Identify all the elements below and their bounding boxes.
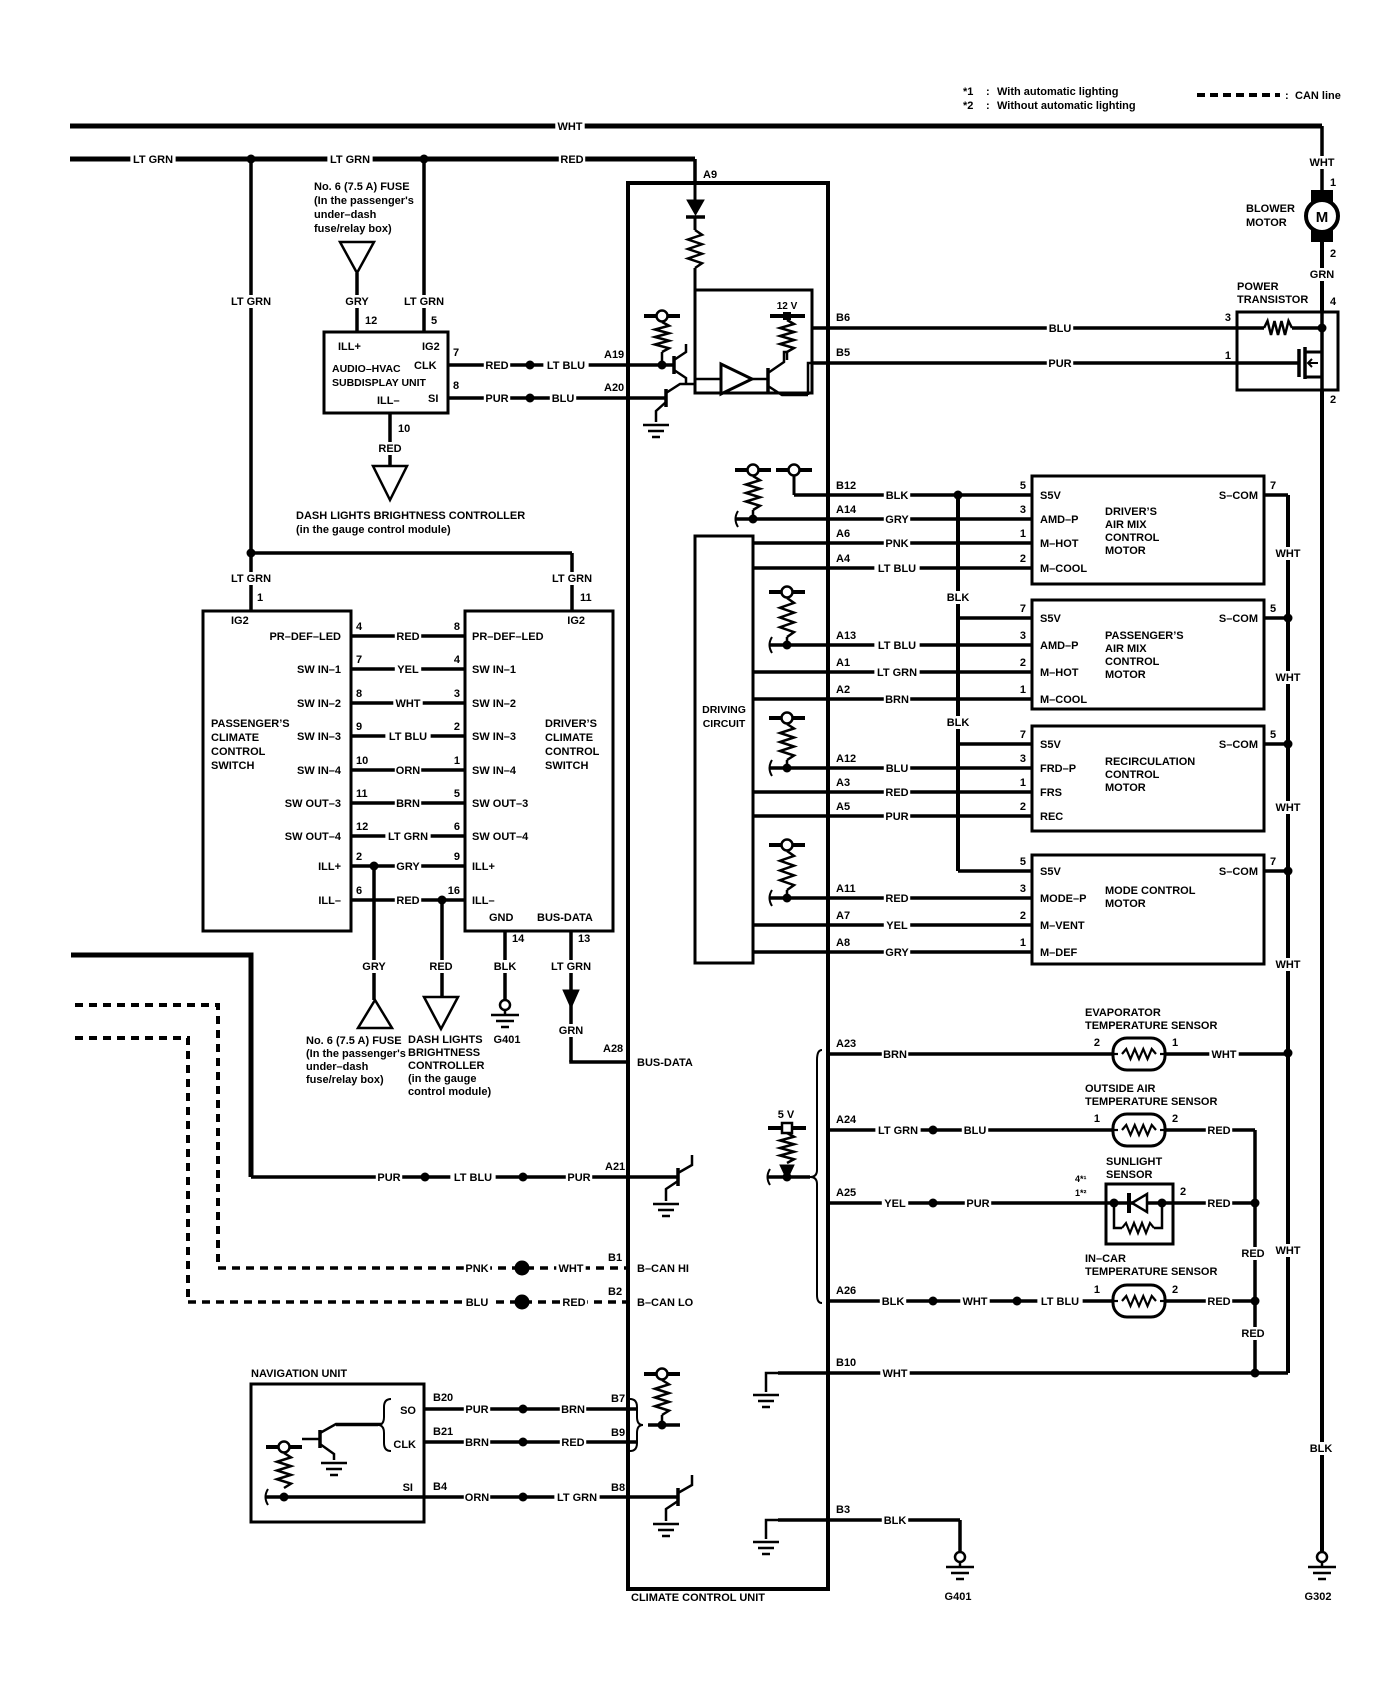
svg-text:2: 2: [1172, 1284, 1178, 1296]
svg-text:RECIRCULATION: RECIRCULATION: [1105, 756, 1195, 768]
svg-text:Without automatic lighting: Without automatic lighting: [997, 100, 1136, 112]
svg-text:S5V: S5V: [1040, 866, 1061, 878]
svg-text:2: 2: [356, 851, 362, 863]
svg-text:12: 12: [356, 821, 368, 833]
svg-text:DASH LIGHTS BRIGHTNESS CONTROL: DASH LIGHTS BRIGHTNESS CONTROLLER: [296, 510, 525, 522]
svg-text:S5V: S5V: [1040, 739, 1061, 751]
svg-text:SI: SI: [403, 1482, 413, 1494]
svg-text:7: 7: [1020, 729, 1026, 741]
svg-text:fuse/relay box): fuse/relay box): [314, 223, 392, 235]
svg-text:1: 1: [1020, 684, 1026, 696]
svg-text:CONTROL: CONTROL: [1105, 532, 1160, 544]
svg-text:RED: RED: [485, 360, 508, 372]
svg-text:2: 2: [1020, 910, 1026, 922]
svg-text:A21: A21: [605, 1161, 625, 1173]
svg-text:G302: G302: [1305, 1591, 1332, 1603]
svg-text:CLK: CLK: [393, 1439, 416, 1451]
svg-text:B1: B1: [608, 1252, 622, 1264]
svg-text:IG2: IG2: [567, 615, 585, 627]
svg-text:PUR: PUR: [1048, 358, 1071, 370]
svg-text:LT GRN: LT GRN: [878, 1125, 918, 1137]
svg-text:7: 7: [453, 347, 459, 359]
svg-text:IG2: IG2: [231, 615, 249, 627]
svg-text:2: 2: [1180, 1186, 1186, 1198]
svg-text:AUDIO–HVAC: AUDIO–HVAC: [332, 363, 401, 375]
svg-text:2: 2: [1330, 248, 1336, 260]
svg-text:5: 5: [1270, 603, 1276, 615]
svg-text:M–DEF: M–DEF: [1040, 947, 1078, 959]
svg-text:IN–CAR: IN–CAR: [1085, 1253, 1126, 1265]
svg-text:RED: RED: [1241, 1328, 1264, 1340]
svg-text:PUR: PUR: [966, 1198, 989, 1210]
svg-text:SW IN–4: SW IN–4: [297, 765, 342, 777]
svg-text:1: 1: [1172, 1037, 1178, 1049]
svg-text:B21: B21: [433, 1426, 453, 1438]
svg-text:SENSOR: SENSOR: [1106, 1169, 1153, 1181]
svg-text:CONTROLLER: CONTROLLER: [408, 1060, 484, 1072]
svg-text:3: 3: [1020, 753, 1026, 765]
svg-text:A20: A20: [604, 382, 624, 394]
svg-text:12: 12: [365, 315, 377, 327]
svg-text:*2: *2: [963, 100, 973, 112]
svg-text:G401: G401: [945, 1591, 972, 1603]
svg-text:PUR: PUR: [567, 1172, 590, 1184]
svg-text:ILL+: ILL+: [338, 341, 361, 353]
svg-text:1: 1: [1094, 1284, 1100, 1296]
svg-text:M–VENT: M–VENT: [1040, 920, 1085, 932]
svg-text:LT GRN: LT GRN: [330, 154, 370, 166]
svg-text:WHT: WHT: [882, 1368, 907, 1380]
svg-text:M–COOL: M–COOL: [1040, 694, 1087, 706]
svg-text:LT BLU: LT BLU: [1041, 1296, 1079, 1308]
svg-text:TEMPERATURE SENSOR: TEMPERATURE SENSOR: [1085, 1020, 1217, 1032]
svg-text:PNK: PNK: [885, 538, 908, 550]
svg-text:BLK: BLK: [947, 717, 970, 729]
svg-text:GRN: GRN: [1310, 269, 1335, 281]
svg-text:12 V: 12 V: [777, 301, 798, 312]
svg-text:under–dash: under–dash: [314, 209, 377, 221]
svg-text:PUR: PUR: [885, 811, 908, 823]
svg-text:WHT: WHT: [1211, 1049, 1236, 1061]
svg-text:A6: A6: [836, 528, 850, 540]
svg-text:A2: A2: [836, 684, 850, 696]
svg-text:SWITCH: SWITCH: [211, 760, 254, 772]
svg-text:LT BLU: LT BLU: [878, 563, 916, 575]
svg-text:B–CAN HI: B–CAN HI: [637, 1263, 689, 1275]
svg-text:MOTOR: MOTOR: [1105, 898, 1146, 910]
svg-text:1: 1: [257, 592, 263, 604]
svg-text:BUS-DATA: BUS-DATA: [537, 912, 593, 924]
svg-text:TEMPERATURE SENSOR: TEMPERATURE SENSOR: [1085, 1096, 1217, 1108]
svg-text:control module): control module): [408, 1086, 491, 1098]
svg-text:WHT: WHT: [962, 1296, 987, 1308]
svg-text:BLU: BLU: [466, 1297, 489, 1309]
svg-text:NAVIGATION UNIT: NAVIGATION UNIT: [251, 1368, 347, 1380]
svg-text:PASSENGER’S: PASSENGER’S: [211, 718, 290, 730]
svg-text:A12: A12: [836, 753, 856, 765]
svg-text:SW OUT–4: SW OUT–4: [285, 831, 342, 843]
svg-text:EVAPORATOR: EVAPORATOR: [1085, 1007, 1161, 1019]
svg-text:PR–DEF–LED: PR–DEF–LED: [269, 631, 341, 643]
svg-text:M–COOL: M–COOL: [1040, 563, 1087, 575]
svg-text:TRANSISTOR: TRANSISTOR: [1237, 294, 1308, 306]
svg-text:9: 9: [454, 851, 460, 863]
svg-text:RED: RED: [396, 631, 419, 643]
svg-text:GRY: GRY: [362, 961, 386, 973]
svg-text:PNK: PNK: [465, 1263, 488, 1275]
svg-text:11: 11: [356, 788, 368, 800]
svg-text:10: 10: [398, 423, 410, 435]
svg-text:LT BLU: LT BLU: [454, 1172, 492, 1184]
svg-text:WHT: WHT: [1275, 1245, 1300, 1257]
svg-text:under–dash: under–dash: [306, 1061, 369, 1073]
svg-text:1: 1: [1330, 177, 1336, 189]
svg-text:DASH LIGHTS: DASH LIGHTS: [408, 1034, 483, 1046]
svg-text:No. 6 (7.5 A) FUSE: No. 6 (7.5 A) FUSE: [314, 181, 410, 193]
svg-text:BLU: BLU: [964, 1125, 987, 1137]
svg-text:2: 2: [1094, 1037, 1100, 1049]
svg-text:2: 2: [1020, 657, 1026, 669]
svg-text:BRN: BRN: [396, 798, 420, 810]
svg-text:A11: A11: [836, 883, 856, 895]
svg-text:(In the passenger's: (In the passenger's: [314, 195, 414, 207]
svg-text:WHT: WHT: [1309, 157, 1334, 169]
svg-text:RED: RED: [560, 154, 583, 166]
svg-text:1*²: 1*²: [1075, 1188, 1087, 1198]
svg-text:CONTROL: CONTROL: [1105, 769, 1160, 781]
svg-text:LT BLU: LT BLU: [547, 360, 585, 372]
svg-text:PUR: PUR: [377, 1172, 400, 1184]
svg-text:GRY: GRY: [396, 861, 420, 873]
svg-text:B9: B9: [611, 1427, 625, 1439]
svg-text:ORN: ORN: [396, 765, 421, 777]
svg-text::: :: [986, 86, 990, 98]
svg-text:M: M: [1316, 209, 1329, 226]
svg-text:BRN: BRN: [883, 1049, 907, 1061]
svg-text:6: 6: [454, 821, 460, 833]
svg-text:SW OUT–3: SW OUT–3: [472, 798, 528, 810]
svg-text:G401: G401: [494, 1034, 521, 1046]
svg-text:ILL–: ILL–: [472, 895, 495, 907]
svg-text:WHT: WHT: [1275, 548, 1300, 560]
svg-text:RED: RED: [1207, 1198, 1230, 1210]
svg-text:A14: A14: [836, 504, 857, 516]
svg-text:B5: B5: [836, 347, 850, 359]
svg-text:*1: *1: [963, 86, 973, 98]
svg-text:BRIGHTNESS: BRIGHTNESS: [408, 1047, 480, 1059]
svg-text:YEL: YEL: [884, 1198, 906, 1210]
svg-text:8: 8: [454, 621, 460, 633]
svg-text:BLOWER: BLOWER: [1246, 203, 1295, 215]
svg-text:MODE CONTROL: MODE CONTROL: [1105, 885, 1196, 897]
svg-text:9: 9: [356, 721, 362, 733]
svg-text:3: 3: [1225, 312, 1231, 324]
svg-text:BLU: BLU: [886, 763, 909, 775]
svg-text:B6: B6: [836, 312, 850, 324]
svg-text:SUBDISPLAY UNIT: SUBDISPLAY UNIT: [332, 377, 427, 389]
svg-text:1: 1: [1094, 1113, 1100, 1125]
svg-text:(In the passenger's: (In the passenger's: [306, 1048, 406, 1060]
svg-text:BUS-DATA: BUS-DATA: [637, 1057, 693, 1069]
svg-text:LT BLU: LT BLU: [878, 640, 916, 652]
svg-text:YEL: YEL: [397, 664, 419, 676]
svg-text:BLK: BLK: [494, 961, 517, 973]
svg-text:4: 4: [454, 654, 461, 666]
svg-text:CLK: CLK: [414, 360, 437, 372]
svg-text:SW OUT–4: SW OUT–4: [472, 831, 529, 843]
svg-text:4: 4: [356, 621, 363, 633]
svg-text:PUR: PUR: [465, 1404, 488, 1416]
svg-text:RED: RED: [562, 1297, 585, 1309]
svg-text:MOTOR: MOTOR: [1246, 217, 1287, 229]
svg-text:WHT: WHT: [1275, 959, 1300, 971]
svg-text:A5: A5: [836, 801, 850, 813]
svg-text:BRN: BRN: [561, 1404, 585, 1416]
svg-text:5: 5: [431, 315, 437, 327]
svg-text:LT BLU: LT BLU: [389, 731, 427, 743]
svg-text:LT GRN: LT GRN: [388, 831, 428, 843]
svg-text:MOTOR: MOTOR: [1105, 545, 1146, 557]
svg-text:A7: A7: [836, 910, 850, 922]
svg-text:3: 3: [1020, 883, 1026, 895]
svg-text:BLK: BLK: [947, 592, 970, 604]
svg-text:BRN: BRN: [885, 694, 909, 706]
svg-text:RED: RED: [396, 895, 419, 907]
svg-text:BRN: BRN: [465, 1437, 489, 1449]
svg-text:RED: RED: [1207, 1296, 1230, 1308]
svg-text:ILL+: ILL+: [318, 861, 341, 873]
svg-text:B4: B4: [433, 1481, 448, 1493]
svg-text:AMD–P: AMD–P: [1040, 514, 1079, 526]
svg-text:GRY: GRY: [345, 296, 369, 308]
svg-text:1: 1: [1020, 528, 1026, 540]
svg-text:S–COM: S–COM: [1219, 866, 1258, 878]
svg-text:3: 3: [1020, 630, 1026, 642]
svg-text:PASSENGER’S: PASSENGER’S: [1105, 630, 1184, 642]
svg-text:ILL–: ILL–: [318, 895, 341, 907]
svg-text:10: 10: [356, 755, 368, 767]
svg-text:B2: B2: [608, 1286, 622, 1298]
svg-text:S5V: S5V: [1040, 613, 1061, 625]
svg-text:YEL: YEL: [886, 920, 908, 932]
svg-text:S–COM: S–COM: [1219, 739, 1258, 751]
svg-text::: :: [1285, 90, 1289, 102]
svg-text:LT GRN: LT GRN: [557, 1492, 597, 1504]
svg-text:5: 5: [1020, 856, 1026, 868]
svg-text:SWITCH: SWITCH: [545, 760, 588, 772]
svg-text:WHT: WHT: [558, 1263, 583, 1275]
svg-text:WHT: WHT: [1275, 802, 1300, 814]
svg-text:7: 7: [1020, 603, 1026, 615]
svg-text:11: 11: [580, 592, 592, 604]
svg-text:FRD–P: FRD–P: [1040, 763, 1076, 775]
svg-text:A8: A8: [836, 937, 850, 949]
svg-text:CONTROL: CONTROL: [211, 746, 266, 758]
svg-text:1: 1: [454, 755, 460, 767]
svg-text:CAN line: CAN line: [1295, 90, 1341, 102]
svg-text:AMD–P: AMD–P: [1040, 640, 1079, 652]
svg-text:GRY: GRY: [885, 947, 909, 959]
svg-text:CONTROL: CONTROL: [545, 746, 600, 758]
svg-text:B7: B7: [611, 1393, 625, 1405]
svg-text:GRY: GRY: [885, 514, 909, 526]
svg-text:1: 1: [1020, 937, 1026, 949]
svg-text:A9: A9: [703, 169, 717, 181]
svg-text:GRN: GRN: [559, 1025, 584, 1037]
svg-text:7: 7: [1270, 480, 1276, 492]
svg-text:M–HOT: M–HOT: [1040, 667, 1079, 679]
svg-text:2: 2: [454, 721, 460, 733]
svg-text:FRS: FRS: [1040, 787, 1062, 799]
svg-text:With automatic lighting: With automatic lighting: [997, 86, 1119, 98]
svg-text:SW IN–3: SW IN–3: [472, 731, 516, 743]
svg-text:DRIVER’S: DRIVER’S: [545, 718, 597, 730]
svg-text:CLIMATE CONTROL UNIT: CLIMATE CONTROL UNIT: [631, 1592, 765, 1604]
svg-text:PUR: PUR: [485, 393, 508, 405]
svg-text:B12: B12: [836, 480, 856, 492]
svg-text:SW IN–2: SW IN–2: [472, 698, 516, 710]
svg-text:RED: RED: [1241, 1248, 1264, 1260]
svg-text:ILL–: ILL–: [377, 395, 400, 407]
svg-text:IG2: IG2: [422, 341, 440, 353]
svg-text:SW IN–3: SW IN–3: [297, 731, 341, 743]
svg-text:MOTOR: MOTOR: [1105, 669, 1146, 681]
svg-text:S–COM: S–COM: [1219, 613, 1258, 625]
svg-text:B3: B3: [836, 1504, 850, 1516]
svg-text:MODE–P: MODE–P: [1040, 893, 1086, 905]
svg-text:RED: RED: [429, 961, 452, 973]
svg-text:A4: A4: [836, 553, 851, 565]
svg-text:RED: RED: [1207, 1125, 1230, 1137]
svg-text:LT GRN: LT GRN: [231, 296, 271, 308]
svg-text:A19: A19: [604, 349, 624, 361]
svg-text:B20: B20: [433, 1392, 453, 1404]
svg-text:MOTOR: MOTOR: [1105, 782, 1146, 794]
svg-text:RED: RED: [885, 787, 908, 799]
svg-text:POWER: POWER: [1237, 281, 1279, 293]
svg-text:SI: SI: [428, 393, 438, 405]
svg-text::: :: [986, 100, 990, 112]
svg-text:ORN: ORN: [465, 1492, 490, 1504]
svg-text:SW IN–4: SW IN–4: [472, 765, 517, 777]
svg-text:2: 2: [1330, 394, 1336, 406]
svg-text:A24: A24: [836, 1114, 857, 1126]
svg-text:AIR MIX: AIR MIX: [1105, 519, 1147, 531]
svg-text:RED: RED: [378, 443, 401, 455]
svg-text:S5V: S5V: [1040, 490, 1061, 502]
svg-text:CLIMATE: CLIMATE: [211, 732, 259, 744]
svg-text:LT GRN: LT GRN: [877, 667, 917, 679]
svg-text:CIRCUIT: CIRCUIT: [703, 718, 746, 730]
svg-text:SW OUT–3: SW OUT–3: [285, 798, 341, 810]
svg-text:WHT: WHT: [557, 121, 582, 133]
svg-text:6: 6: [356, 885, 362, 897]
svg-text:DRIVING: DRIVING: [702, 704, 746, 716]
svg-text:SW IN–2: SW IN–2: [297, 698, 341, 710]
svg-text:1: 1: [1225, 350, 1231, 362]
svg-text:16: 16: [448, 885, 460, 897]
svg-text:BLK: BLK: [1310, 1443, 1333, 1455]
svg-text:A13: A13: [836, 630, 856, 642]
svg-text:SO: SO: [400, 1405, 416, 1417]
svg-text:SUNLIGHT: SUNLIGHT: [1106, 1156, 1163, 1168]
svg-text:3: 3: [1020, 504, 1026, 516]
svg-text:PR–DEF–LED: PR–DEF–LED: [472, 631, 544, 643]
svg-text:5 V: 5 V: [778, 1109, 795, 1121]
svg-text:LT GRN: LT GRN: [551, 961, 591, 973]
svg-text:WHT: WHT: [1275, 672, 1300, 684]
svg-text:CLIMATE: CLIMATE: [545, 732, 593, 744]
svg-text:SW IN–1: SW IN–1: [297, 664, 341, 676]
svg-text:ILL+: ILL+: [472, 861, 495, 873]
svg-text:LT GRN: LT GRN: [133, 154, 173, 166]
svg-text:RED: RED: [561, 1437, 584, 1449]
svg-text:TEMPERATURE SENSOR: TEMPERATURE SENSOR: [1085, 1266, 1217, 1278]
svg-text:13: 13: [578, 933, 590, 945]
svg-text:No. 6 (7.5 A) FUSE: No. 6 (7.5 A) FUSE: [306, 1035, 402, 1047]
svg-text:14: 14: [512, 933, 525, 945]
svg-text:4: 4: [1330, 296, 1337, 308]
svg-text:REC: REC: [1040, 811, 1063, 823]
svg-text:BLU: BLU: [552, 393, 575, 405]
svg-text:2: 2: [1020, 553, 1026, 565]
svg-text:B10: B10: [836, 1357, 856, 1369]
svg-text:B–CAN LO: B–CAN LO: [637, 1297, 694, 1309]
svg-text:A25: A25: [836, 1187, 856, 1199]
svg-text:LT GRN: LT GRN: [404, 296, 444, 308]
svg-text:LT GRN: LT GRN: [231, 573, 271, 585]
svg-text:8: 8: [453, 380, 459, 392]
svg-text:DRIVER’S: DRIVER’S: [1105, 506, 1157, 518]
svg-text:M–HOT: M–HOT: [1040, 538, 1079, 550]
svg-text:A3: A3: [836, 777, 850, 789]
svg-text:WHT: WHT: [395, 698, 420, 710]
svg-text:8: 8: [356, 688, 362, 700]
svg-text:(in the gauge: (in the gauge: [408, 1073, 476, 1085]
svg-text:BLK: BLK: [882, 1296, 905, 1308]
svg-text:5: 5: [1020, 480, 1026, 492]
svg-text:B8: B8: [611, 1482, 625, 1494]
svg-text:GND: GND: [489, 912, 514, 924]
svg-text:AIR MIX: AIR MIX: [1105, 643, 1147, 655]
svg-text:2: 2: [1020, 801, 1026, 813]
svg-text:A23: A23: [836, 1038, 856, 1050]
svg-text:5: 5: [1270, 729, 1276, 741]
svg-text:RED: RED: [885, 893, 908, 905]
svg-text:OUTSIDE AIR: OUTSIDE AIR: [1085, 1083, 1156, 1095]
svg-text:CONTROL: CONTROL: [1105, 656, 1160, 668]
svg-text:(in the gauge control module): (in the gauge control module): [296, 524, 451, 536]
svg-text:BLK: BLK: [884, 1515, 907, 1527]
svg-text:S–COM: S–COM: [1219, 490, 1258, 502]
svg-text:5: 5: [454, 788, 460, 800]
svg-text:4*¹: 4*¹: [1075, 1174, 1087, 1184]
svg-text:fuse/relay box): fuse/relay box): [306, 1074, 384, 1086]
svg-text:BLK: BLK: [886, 490, 909, 502]
svg-text:A1: A1: [836, 657, 850, 669]
svg-text:A28: A28: [603, 1043, 623, 1055]
svg-text:A26: A26: [836, 1285, 856, 1297]
svg-text:BLU: BLU: [1049, 323, 1072, 335]
svg-text:3: 3: [454, 688, 460, 700]
svg-text:SW IN–1: SW IN–1: [472, 664, 516, 676]
svg-text:7: 7: [356, 654, 362, 666]
svg-text:2: 2: [1172, 1113, 1178, 1125]
svg-text:1: 1: [1020, 777, 1026, 789]
svg-text:7: 7: [1270, 856, 1276, 868]
svg-text:LT GRN: LT GRN: [552, 573, 592, 585]
